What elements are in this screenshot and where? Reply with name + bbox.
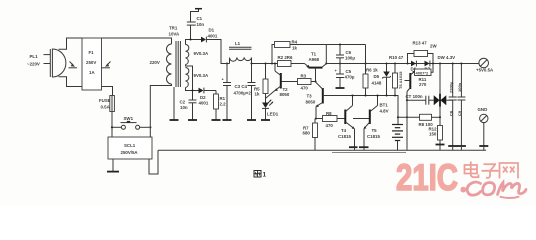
output terminal +5V 0.5A — [476, 58, 494, 72]
svg-text:CT 100n: CT 100n — [406, 94, 423, 99]
svg-text:D1: D1 — [209, 28, 215, 33]
wire R4 feedback line — [290, 44, 366, 46]
svg-text:T6 A1015: T6 A1015 — [398, 71, 403, 89]
node D7 right — [432, 62, 434, 64]
svg-text:4148: 4148 — [372, 81, 382, 86]
capacitor C2 10n — [180, 100, 197, 120]
ground C8 — [448, 146, 457, 150]
node R5 — [264, 62, 266, 64]
node D2 row / C2 — [191, 89, 193, 91]
resistor R8 100 — [398, 114, 440, 127]
svg-text:T3: T3 — [307, 94, 313, 99]
node R10 rail — [394, 62, 396, 64]
svg-text:4001: 4001 — [208, 33, 218, 38]
node junction right of SW1 — [149, 126, 151, 128]
watermark hanzi zi — [482, 164, 499, 178]
svg-text:L1: L1 — [235, 41, 241, 46]
svg-text:1k: 1k — [255, 92, 260, 97]
transformer primary winding 220V — [150, 44, 172, 84]
ground BT1 — [397, 141, 399, 151]
svg-text:R13 47: R13 47 — [413, 41, 428, 46]
node T4 collector — [351, 94, 353, 96]
wire fuse to switch node — [111, 112, 113, 138]
wire plug top to F1 — [59, 38, 83, 49]
node R10 bottom — [394, 94, 396, 96]
terminal GND — [478, 107, 488, 146]
interlock box SCL1 250V/5A — [108, 137, 152, 159]
resistor R1 2.2 — [214, 91, 227, 120]
svg-text:100n: 100n — [457, 82, 462, 92]
fuse FUSE 0.5A — [99, 96, 114, 112]
wire main rail C6 to right — [340, 63, 479, 65]
transformer core — [176, 41, 180, 87]
node T2 collector — [274, 62, 276, 64]
ground R12 — [436, 145, 445, 151]
diode D5 4148 — [372, 64, 391, 96]
svg-text:SCL1: SCL1 — [124, 143, 136, 148]
svg-text:PL1: PL1 — [30, 54, 39, 59]
node battery charge row — [397, 116, 399, 118]
resistor R6 1k — [363, 45, 378, 96]
node C6 rail — [339, 62, 341, 64]
svg-text:+5V0.5A: +5V0.5A — [476, 68, 494, 73]
ground rail — [158, 149, 486, 151]
wire F1 bottom to fuse — [102, 87, 113, 96]
capacitor CT 100n — [406, 94, 434, 105]
wire secondary top tap to D1 — [186, 40, 202, 45]
ground under SCL1 — [107, 171, 119, 173]
ground C2 — [188, 119, 197, 121]
svg-text:9V0.3A: 9V0.3A — [194, 51, 209, 56]
node C1/rectifier — [189, 38, 191, 40]
LED1 — [262, 100, 279, 120]
svg-text:4.8V: 4.8V — [380, 109, 389, 114]
svg-text:F1: F1 — [89, 50, 95, 55]
ground R1 — [212, 119, 221, 121]
svg-text:C9: C9 — [457, 110, 462, 116]
chassis cap symbol right of F1 — [102, 62, 111, 68]
node D5 bottom — [385, 94, 387, 96]
node D5 rail — [385, 62, 387, 64]
wire main rail L1 to R2 — [252, 63, 278, 65]
node R4 left — [271, 62, 273, 64]
svg-text:D2: D2 — [200, 95, 206, 100]
svg-text:TR1: TR1 — [169, 26, 178, 31]
wire secondary center tap to C2 — [186, 65, 193, 101]
svg-text:R3: R3 — [301, 74, 307, 79]
node T6 line R8 row — [406, 116, 408, 118]
wire T5 base — [353, 118, 370, 120]
svg-text:2.2: 2.2 — [220, 102, 227, 107]
svg-text:R10 47: R10 47 — [389, 55, 404, 60]
svg-text:C1815: C1815 — [367, 134, 380, 139]
transistor T1 A968 — [305, 52, 340, 82]
resistor R11 270 with 4007x2 label — [415, 64, 434, 88]
ground C5 — [336, 87, 345, 89]
svg-text:150: 150 — [429, 132, 437, 137]
svg-text:DW 4.3V: DW 4.3V — [438, 55, 456, 60]
svg-text:R4: R4 — [292, 40, 298, 45]
svg-text:A968: A968 — [309, 57, 320, 62]
svg-text:270: 270 — [419, 82, 427, 87]
capacitor C8 2200u — [449, 64, 457, 146]
svg-text:680: 680 — [303, 131, 311, 136]
resistor R7 680 — [303, 119, 318, 151]
svg-text:T5: T5 — [372, 128, 378, 133]
svg-text:2200µ: 2200µ — [449, 81, 454, 93]
node C4 — [250, 62, 252, 64]
svg-text:4001: 4001 — [199, 101, 209, 106]
label C3 C4 4700ux2 — [234, 84, 252, 96]
plug PL1 label — [27, 54, 40, 67]
node R6 bottom — [364, 94, 366, 96]
capacitor C1 10n — [187, 9, 205, 40]
resistor R10 47 — [389, 55, 404, 96]
svg-text:470µ: 470µ — [345, 75, 355, 80]
svg-text:100µ: 100µ — [345, 56, 355, 61]
capacitor C6 100u — [336, 45, 355, 64]
svg-text:BT1: BT1 — [380, 103, 389, 108]
transistor T4 C1815 — [338, 96, 355, 148]
svg-text:470: 470 — [301, 86, 309, 91]
capacitor C9 100n — [457, 64, 465, 146]
wire SCL1 left leg to ground — [112, 159, 114, 171]
wire SCL1 right jog to ground rail — [149, 150, 158, 174]
svg-text:250V: 250V — [86, 60, 96, 65]
svg-text:220V: 220V — [150, 60, 160, 65]
diode D6 — [411, 61, 417, 72]
ground LED1 — [261, 119, 270, 121]
watermark hanzi wang — [500, 163, 519, 179]
node T5 collector — [376, 94, 378, 96]
node DW rail — [439, 62, 441, 64]
resistor R3 470 — [282, 74, 316, 91]
wire rail into L1 region — [221, 63, 230, 65]
wire core shield to ground — [173, 87, 175, 120]
transistor T5 C1815 — [364, 96, 381, 148]
transformer secondary winding 2 9V0.3A — [186, 68, 209, 88]
fuse-filter box F1 — [82, 38, 102, 90]
svg-text:T1: T1 — [311, 52, 317, 57]
inductor L1 — [229, 41, 252, 64]
svg-text:250V/5A: 250V/5A — [121, 150, 139, 155]
wire transformer primary bottom to SCL1 — [150, 84, 171, 137]
wire plug bottom — [59, 77, 83, 87]
node R13 left — [406, 62, 408, 64]
svg-text:1: 1 — [263, 172, 267, 179]
ground shield — [170, 119, 179, 121]
resistor R12 150 — [429, 117, 443, 144]
capacitor C4 4700u — [248, 64, 256, 120]
svg-text:8050: 8050 — [306, 100, 316, 105]
transformer TR1 label — [169, 26, 180, 37]
svg-text:4007*2: 4007*2 — [416, 70, 429, 75]
rail double-edge artifact — [332, 151, 406, 153]
resistor R13 47 2W — [408, 41, 438, 64]
svg-text:C8: C8 — [449, 110, 454, 116]
node drop T1 — [325, 62, 327, 64]
svg-text:470: 470 — [326, 123, 334, 128]
svg-text:R1: R1 — [220, 96, 226, 101]
svg-text:C2: C2 — [180, 100, 186, 105]
wire zener to C8 — [446, 99, 452, 101]
diode D1 4001 — [201, 28, 218, 43]
svg-text:R6 1k: R6 1k — [366, 68, 378, 73]
ground C9 — [457, 146, 466, 150]
svg-text:21IC: 21IC — [396, 157, 458, 198]
feedback node wire — [324, 96, 398, 125]
resistor R5 1k — [254, 64, 268, 103]
transistor T2 8050 — [266, 64, 290, 99]
plug PL1 symbol — [44, 49, 66, 77]
transistor T3 8050 — [306, 82, 323, 119]
zener DW bidirectional symbol — [434, 64, 447, 118]
svg-text:FUSE: FUSE — [99, 98, 111, 103]
svg-text:~220V: ~220V — [27, 62, 40, 67]
battery BT1 4.8V — [380, 103, 404, 141]
resistor R4 1k — [272, 40, 298, 64]
svg-text:1A: 1A — [89, 70, 95, 75]
diode D2 4001 — [199, 88, 217, 106]
svg-text:10n: 10n — [197, 22, 205, 27]
wire D1 out to L1 — [206, 40, 229, 64]
node C6 top — [339, 43, 341, 45]
svg-text:R2 2R6: R2 2R6 — [278, 55, 293, 60]
watermark hanzi dian — [465, 162, 479, 178]
svg-text:4700µ×2: 4700µ×2 — [234, 91, 252, 96]
diode D7 — [425, 61, 431, 72]
transistor T6 A1015 — [398, 71, 415, 151]
node junction left of SW1 — [111, 126, 113, 128]
ground T5 emitter — [359, 147, 369, 150]
node C3 — [226, 62, 228, 64]
node C9 rail — [460, 62, 462, 64]
switch SW1 — [113, 116, 149, 129]
svg-text:R8: R8 — [326, 111, 332, 116]
svg-text:1k: 1k — [292, 46, 297, 51]
svg-text:T4: T4 — [341, 128, 347, 133]
resistor R8h 470 — [316, 111, 345, 128]
svg-text:C1815: C1815 — [338, 134, 351, 139]
capacitor C5 470u — [335, 64, 355, 88]
ground GND terminal — [479, 146, 488, 150]
svg-text:C6: C6 — [346, 50, 352, 55]
svg-text:LED1: LED1 — [267, 112, 279, 117]
resistor R2 series — [278, 55, 293, 67]
svg-text:SW1: SW1 — [124, 116, 134, 121]
svg-text:C5: C5 — [346, 69, 352, 74]
svg-text:C1: C1 — [197, 16, 203, 21]
ground C3 — [223, 119, 232, 121]
watermark com script — [467, 182, 526, 198]
wire R4 line drop at T1 collector — [325, 45, 327, 64]
node T1 base / R3 — [314, 80, 316, 82]
node R4line/R6 rail — [364, 62, 366, 64]
node R12 top — [439, 116, 441, 118]
node C8 rail — [452, 62, 454, 64]
svg-text:9V0.3A: 9V0.3A — [194, 73, 209, 78]
watermark period — [460, 187, 466, 193]
ground C4 — [247, 119, 256, 121]
svg-text:2W: 2W — [430, 44, 437, 49]
node T3 emitter / R7 / R8h — [315, 117, 317, 119]
svg-text:10n: 10n — [180, 105, 188, 110]
capacitor C3 4700u — [222, 64, 232, 120]
svg-text:8050: 8050 — [280, 92, 290, 97]
svg-text:C3 C4: C3 C4 — [235, 84, 248, 89]
svg-text:D5: D5 — [374, 74, 380, 79]
ground T4 emitter — [349, 147, 358, 150]
caption figure 1 — [254, 171, 267, 179]
node T6 collector / CT row — [406, 99, 408, 101]
svg-text:10VA: 10VA — [169, 32, 180, 37]
chassis cap symbol left of F1 — [69, 62, 78, 68]
wire secondary bottom tap to D2 — [186, 88, 199, 91]
transformer secondary winding 1 9V0.3A — [186, 45, 209, 65]
wire R2 to T1 — [291, 63, 305, 65]
wire F1 top to transformer — [102, 38, 172, 44]
svg-text:GND: GND — [478, 107, 488, 112]
svg-text:0.5A: 0.5A — [101, 105, 111, 110]
